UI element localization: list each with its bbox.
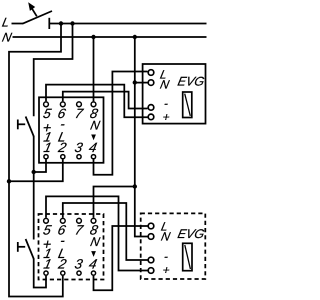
pushbutton S3 contact blade [26, 239, 34, 259]
wire module U1 pin8 to N bus [93, 37, 95, 101]
wire L bus [49, 23, 206, 25]
junction dot N rail to module U2 pin8 [133, 184, 137, 188]
EVG2 terminal L [148, 223, 154, 229]
module U2 terminal 6 [60, 218, 65, 223]
wire module U1 pin5 to EVG1 plus [46, 85, 148, 118]
module U2 terminal 1 [44, 271, 48, 275]
module U1 output arrow [91, 135, 96, 141]
module U1 terminal 4 [91, 155, 95, 159]
switch S1 fixed contact bar [48, 18, 50, 29]
switch S1 actuation arrow [28, 2, 37, 16]
wire module U2 pin4 to EVG2 L [94, 226, 148, 290]
junction dot N to module U1 pin8 [91, 35, 95, 39]
wire L feed [12, 23, 24, 25]
pushbutton S2 contact blade [26, 117, 34, 137]
wire L branch 2 to pushbutton S2 [34, 24, 73, 117]
svg-text:EVG: EVG [176, 74, 205, 88]
module U1 terminal 2 [61, 155, 65, 159]
junction dot left rail to module U1 pin2 [7, 179, 11, 183]
module U2 terminal 8 [91, 218, 96, 223]
module U1 terminal 3 [77, 155, 81, 159]
EVG2 terminal minus [148, 257, 154, 263]
EVG1 terminal plus [148, 114, 154, 120]
EVG2 terminal plus [148, 268, 154, 274]
svg-text:EVG: EVG [176, 227, 205, 241]
EVG2 terminal N [148, 234, 154, 240]
wire module U1 pin4 to EVG1 L [94, 72, 148, 175]
wire N rail down to EVG2 N [135, 37, 148, 237]
module U2 output arrow [91, 251, 96, 257]
module U2 terminal 4 [91, 271, 95, 275]
wire module U1 pin1 [34, 159, 46, 172]
wire N bus [13, 36, 207, 38]
wire module U2 pin5 to EVG2 plus [46, 196, 148, 270]
EVG2 lamp symbol [183, 243, 192, 270]
wire module U2 pin1 to pushbutton S3 [34, 259, 46, 288]
module U1 box [39, 97, 104, 163]
EVG1 lamp symbol [183, 92, 192, 118]
EVG1 terminal minus [148, 105, 154, 111]
module U1 terminal 1 [44, 155, 48, 159]
pushbutton S2 actuator [18, 120, 25, 130]
junction dot N to EVG N rail [133, 35, 137, 39]
switch S1 contact blade [23, 11, 53, 24]
wire N rail to module U2 pin8 [94, 187, 135, 218]
wire EVG1 N stub [135, 82, 148, 84]
junction dot rail to module U1 pin1 [32, 170, 36, 174]
wire module U1 pin6 to EVG1 minus [63, 92, 148, 109]
module U2 dashed box [39, 214, 104, 280]
junction dot L branch 1 [59, 21, 63, 25]
EVG2 dashed box [141, 213, 206, 279]
wire module U1 pin2 to left rail [9, 159, 63, 181]
wire pushbutton S2 output rail to pushbutton S3 [33, 136, 35, 240]
module U2 terminal 5 [44, 218, 49, 223]
pushbutton S3 actuator [18, 242, 25, 252]
wire L branch 1 left rail to module U2 pin2 [9, 24, 63, 297]
module U2 terminal 2 [61, 271, 65, 275]
EVG1 terminal N [148, 80, 154, 86]
junction dot L branch 2 [70, 21, 74, 25]
EVG1 terminal L [148, 70, 154, 76]
module U1 terminal 8 [91, 102, 96, 107]
module U2 terminal 3 [77, 271, 81, 275]
module U1 terminal 5 [44, 102, 49, 107]
wire module U2 pin6 to EVG2 minus [63, 203, 148, 260]
junction dot N rail to EVG1 N [133, 80, 137, 84]
module U1 terminal 7 [77, 102, 82, 107]
EVG1 box [143, 64, 206, 124]
module U1 terminal 6 [60, 102, 65, 107]
module U2 terminal 7 [77, 218, 82, 223]
